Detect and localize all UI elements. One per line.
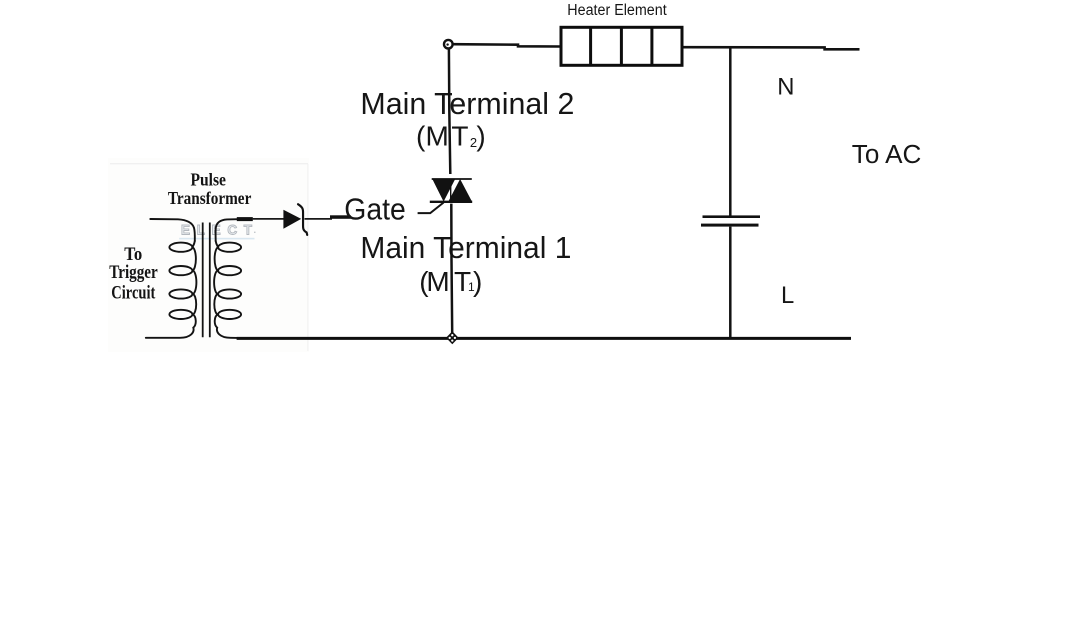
wire bottom main bbox=[237, 337, 851, 340]
node at top (terminal circle) bbox=[444, 40, 453, 49]
svg-text:L: L bbox=[781, 282, 794, 309]
svg-text:M: M bbox=[426, 120, 449, 151]
triac TR1 top bar bbox=[432, 178, 472, 180]
triac TR1 channel line bbox=[450, 179, 452, 202]
label Pulse Transformer bbox=[168, 170, 252, 209]
heater element R1 (sectioned box) bbox=[561, 27, 682, 65]
wire heater to right bbox=[684, 47, 860, 49]
wire diode to gate bbox=[305, 218, 333, 220]
label (MT2) bbox=[416, 120, 486, 151]
svg-text:): ) bbox=[476, 120, 485, 151]
pasted transformer image background bbox=[108, 158, 309, 352]
diode D1 anode triangle bbox=[283, 210, 301, 229]
svg-text:Pulse: Pulse bbox=[190, 170, 226, 190]
svg-text:Circuit: Circuit bbox=[111, 282, 156, 303]
wire capacitor to bottom bbox=[729, 227, 732, 338]
svg-text:To AC: To AC bbox=[852, 141, 922, 169]
svg-text:Trigger: Trigger bbox=[109, 262, 158, 283]
transformer T1 primary winding bbox=[146, 219, 197, 338]
svg-text:): ) bbox=[473, 266, 482, 297]
wire secondary top stub (thick) bbox=[237, 217, 253, 221]
svg-text:Main Terminal 2: Main Terminal 2 bbox=[360, 86, 574, 121]
svg-text:M: M bbox=[426, 266, 449, 297]
label To Trigger Circuit bbox=[109, 244, 158, 304]
wire branch down to capacitor bbox=[729, 46, 732, 215]
svg-text:Gate: Gate bbox=[344, 192, 406, 227]
wire gate stub (thick) bbox=[330, 215, 351, 219]
label (MT1) bbox=[419, 266, 482, 297]
node at bottom (junction) bbox=[446, 331, 459, 344]
triac TR1 right triangle bbox=[448, 179, 472, 202]
svg-text:Transformer: Transformer bbox=[168, 188, 252, 208]
wire node to triac MT2 bbox=[449, 49, 450, 175]
svg-text:T: T bbox=[451, 120, 468, 151]
capacitor C1 bottom plate bbox=[701, 224, 759, 227]
svg-text:Main Terminal 1: Main Terminal 1 bbox=[360, 230, 571, 265]
transformer T1 core bbox=[203, 223, 210, 338]
diode D1 cathode bar bbox=[298, 204, 307, 235]
svg-text:Heater Element: Heater Element bbox=[567, 2, 667, 19]
wire top node to heater bbox=[453, 44, 560, 46]
svg-text:.: . bbox=[253, 221, 257, 236]
gate lead of triac bbox=[418, 203, 444, 214]
wire to diode bbox=[253, 218, 284, 220]
svg-text:(: ( bbox=[416, 120, 426, 151]
wire triac MT1 to bottom node bbox=[450, 204, 453, 333]
triac TR1 left triangle bbox=[432, 179, 455, 202]
transformer T1 secondary winding bbox=[214, 219, 241, 338]
watermark ELECT bbox=[179, 221, 256, 239]
triac TR1 bottom bar bbox=[430, 201, 472, 203]
capacitor C1 top plate bbox=[703, 215, 761, 218]
svg-text:N: N bbox=[777, 74, 794, 101]
